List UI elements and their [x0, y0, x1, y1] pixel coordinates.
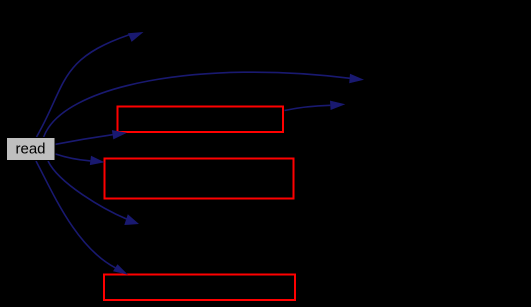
svg-text:read: read: [15, 141, 45, 158]
